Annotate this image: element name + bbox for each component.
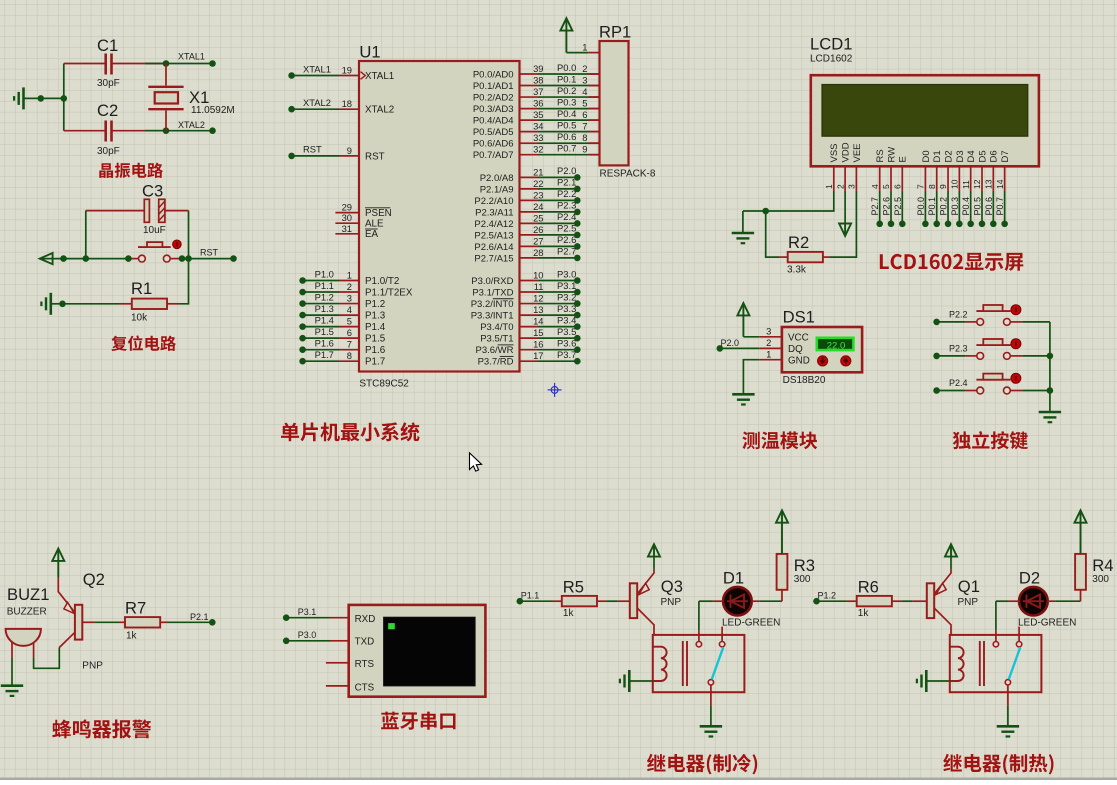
svg-text:P2.1: P2.1 — [190, 612, 209, 622]
svg-text:3: 3 — [847, 184, 857, 189]
svg-text:23: 23 — [533, 189, 543, 200]
wire button P2.2 to common — [1010, 321, 1022, 323]
resistor R4 — [1075, 554, 1086, 590]
svg-text:22.0: 22.0 — [827, 340, 846, 351]
resistor pack RP1 — [600, 41, 629, 165]
clock chevron on XTAL1 — [361, 72, 366, 80]
wire P1.2 to R6 — [817, 600, 847, 602]
wire P0.4 to LCD D4 + node P0.4 — [970, 191, 972, 224]
svg-text:LED-GREEN: LED-GREEN — [722, 618, 780, 629]
wire relay common to ground — [1007, 685, 1009, 706]
wire relay common to ground — [710, 685, 712, 706]
pin 4 RP1 stub — [589, 96, 600, 98]
svg-text:RW: RW — [886, 147, 897, 163]
label duli anjian — [953, 431, 1028, 449]
svg-text:P0.3/AD3: P0.3/AD3 — [473, 104, 514, 115]
push button P2.4 — [965, 390, 976, 392]
svg-text:P2.7/A15: P2.7/A15 — [474, 253, 513, 264]
pin 21 P2.0 wire + node P2.0 — [520, 176, 539, 178]
svg-text:RP1: RP1 — [599, 23, 631, 42]
power arrow (R3) — [776, 510, 788, 522]
svg-text:P0.2: P0.2 — [939, 197, 949, 216]
svg-text:P3.6/WR: P3.6/WR — [475, 345, 513, 356]
wire buzzer left leg + ground — [11, 658, 13, 685]
svg-text:P2.3: P2.3 — [557, 200, 576, 211]
svg-text:5: 5 — [582, 98, 587, 109]
svg-text:35: 35 — [533, 109, 543, 120]
svg-text:2: 2 — [582, 63, 587, 74]
LCD LCD1 body — [811, 75, 1039, 166]
svg-text:XTAL1: XTAL1 — [365, 71, 394, 82]
svg-text:16: 16 — [533, 339, 543, 350]
power arrow down (LCD VDD) — [844, 191, 846, 223]
power arrow (R4) — [1075, 510, 1087, 522]
svg-text:D6: D6 — [989, 150, 1000, 162]
bluetooth serial module body — [349, 605, 486, 697]
junction dot — [1047, 353, 1054, 360]
pin 3 VCC wire + power arrow — [759, 336, 782, 338]
svg-text:D3: D3 — [955, 150, 966, 162]
svg-text:P2.4: P2.4 — [557, 211, 576, 222]
svg-text:D1: D1 — [932, 150, 943, 162]
svg-text:28: 28 — [533, 247, 543, 258]
svg-text:P1.2: P1.2 — [818, 591, 837, 601]
wire P0.1 to LCD D1 + node P0.1 — [936, 191, 938, 224]
svg-text:10: 10 — [533, 270, 543, 281]
svg-text:P3.0: P3.0 — [557, 268, 576, 279]
relay core — [682, 641, 684, 686]
wire D2 to relay contact — [1009, 600, 1020, 602]
svg-text:P3.7/RD: P3.7/RD — [478, 357, 514, 368]
svg-text:P1.4: P1.4 — [365, 322, 386, 333]
pin 3 RP1 stub — [589, 85, 600, 87]
pin 39 P0.0 wire to RP1 — [520, 73, 539, 75]
label lanya chuankou — [381, 712, 455, 730]
pin 17 P3.7 wire + node P3.7 — [520, 360, 539, 362]
svg-text:9: 9 — [582, 144, 587, 155]
svg-text:LCD1: LCD1 — [810, 35, 852, 54]
svg-text:P2.4: P2.4 — [949, 378, 968, 388]
power arrow (Q3 emitter) — [653, 557, 655, 569]
svg-text:RS: RS — [875, 149, 886, 162]
svg-text:P0.1/AD1: P0.1/AD1 — [473, 81, 514, 92]
relay core — [979, 641, 981, 686]
junction dot — [762, 208, 769, 215]
svg-text:XTAL1: XTAL1 — [303, 63, 331, 74]
node P1.1 — [517, 598, 524, 605]
pin RXD wire + node P3.1 — [330, 617, 349, 619]
wire button P2.3 to common — [1010, 355, 1022, 357]
svg-text:P2.6/A14: P2.6/A14 — [474, 242, 513, 253]
svg-text:8: 8 — [347, 350, 352, 361]
wire R7 to node P2.1 — [168, 621, 213, 623]
svg-text:RST: RST — [200, 248, 219, 258]
svg-text:P1.4: P1.4 — [315, 314, 334, 325]
pin 3 P1.2 wire + node P1.2 — [299, 300, 306, 307]
svg-text:P1.1/T2EX: P1.1/T2EX — [365, 287, 413, 298]
svg-text:P0.7: P0.7 — [995, 197, 1005, 216]
svg-text:33: 33 — [533, 132, 543, 143]
svg-text:11.0592M: 11.0592M — [191, 105, 235, 116]
svg-text:PNP: PNP — [661, 597, 682, 608]
svg-text:1: 1 — [766, 348, 771, 359]
pin 27 P2.6 wire + node P2.6 — [520, 245, 539, 247]
wire C3 right branch — [188, 211, 190, 259]
svg-text:DS1: DS1 — [783, 308, 815, 327]
svg-text:30: 30 — [342, 212, 352, 223]
power arrow (RP1 pin1) — [560, 18, 572, 30]
svg-text:U1: U1 — [359, 43, 380, 62]
wire ground to junction — [24, 97, 64, 99]
svg-text:P2.1/A9: P2.1/A9 — [480, 184, 514, 195]
svg-text:VDD: VDD — [841, 142, 852, 162]
svg-text:37: 37 — [533, 86, 543, 97]
junction dot X1 top — [163, 60, 170, 67]
pin 16 P3.6 wire + node P3.6 — [520, 349, 539, 351]
svg-text:P0.7: P0.7 — [557, 143, 576, 154]
wire R6 to Q1 base — [902, 600, 913, 602]
svg-text:32: 32 — [533, 144, 543, 155]
svg-text:D4: D4 — [966, 150, 977, 162]
junction dot — [83, 255, 90, 262]
crystal X1 — [165, 64, 167, 86]
svg-text:P0.4/AD4: P0.4/AD4 — [473, 116, 514, 127]
svg-text:P0.0/AD0: P0.0/AD0 — [473, 69, 514, 80]
svg-text:R5: R5 — [563, 578, 584, 597]
label fengmingqi baojing — [52, 720, 151, 739]
svg-text:P1.3: P1.3 — [315, 303, 334, 314]
bottom window edge — [0, 778, 1117, 781]
terminal arrow (reset net) — [40, 253, 53, 264]
svg-text:14: 14 — [995, 179, 1005, 189]
relay body (继电器(制冷)) — [653, 635, 745, 692]
pin 9 RP1 stub — [589, 154, 600, 156]
svg-text:P0.1: P0.1 — [557, 73, 576, 84]
svg-text:D2: D2 — [943, 150, 954, 162]
svg-text:LED-GREEN: LED-GREEN — [1018, 618, 1076, 629]
push button P2.2 — [965, 321, 976, 323]
svg-text:RESPACK-8: RESPACK-8 — [600, 169, 656, 180]
svg-text:R2: R2 — [788, 233, 809, 252]
svg-text:P2.4/A12: P2.4/A12 — [474, 219, 513, 230]
svg-text:5: 5 — [881, 184, 891, 189]
temperature module DS1 body — [782, 327, 862, 372]
pin 26 P2.5 wire + node P2.5 — [520, 234, 539, 236]
svg-text:E: E — [898, 156, 909, 162]
svg-text:XTAL1: XTAL1 — [178, 52, 205, 62]
svg-text:VSS: VSS — [829, 143, 840, 162]
wire P0.7 to LCD D7 + node P0.7 — [1004, 191, 1006, 224]
svg-text:D1: D1 — [723, 569, 744, 588]
DS1 temperature display 22.0 — [817, 338, 854, 350]
capacitor C2 — [64, 130, 105, 132]
wire D2 to R4 — [1048, 600, 1056, 602]
capacitor C3 (polarized) — [86, 210, 145, 212]
svg-text:1k: 1k — [126, 631, 138, 642]
svg-text:13: 13 — [984, 179, 994, 189]
push button P2.3 — [965, 355, 976, 357]
svg-text:P3.0/RXD: P3.0/RXD — [471, 276, 513, 287]
pin TXD wire + node P3.0 — [330, 640, 349, 642]
svg-text:9: 9 — [347, 145, 352, 156]
ground (keys) — [1039, 411, 1061, 414]
svg-text:XTAL2: XTAL2 — [303, 97, 331, 108]
svg-text:18: 18 — [342, 98, 352, 109]
pin 9 RST wire + node RST — [288, 153, 295, 160]
node XTAL2 — [209, 127, 216, 134]
svg-text:6: 6 — [347, 327, 352, 338]
svg-text:P2.3: P2.3 — [949, 343, 968, 353]
svg-text:12: 12 — [972, 179, 982, 189]
svg-text:27: 27 — [533, 235, 543, 246]
svg-text:P0.4: P0.4 — [557, 108, 576, 119]
wire VSS to ground — [743, 191, 834, 211]
pin 19 XTAL1 wire + node XTAL1 — [288, 72, 295, 79]
svg-text:3: 3 — [766, 326, 771, 337]
svg-text:ALE: ALE — [365, 219, 384, 230]
svg-text:21: 21 — [533, 166, 543, 177]
svg-text:1: 1 — [824, 184, 834, 189]
resistor R6 — [847, 600, 857, 602]
svg-text:P1.7: P1.7 — [315, 349, 334, 360]
svg-text:P3.2/INT0: P3.2/INT0 — [471, 299, 514, 310]
svg-text:3: 3 — [582, 75, 587, 86]
svg-text:8: 8 — [582, 132, 587, 143]
svg-text:5: 5 — [347, 316, 352, 327]
resistor R5 — [552, 600, 562, 602]
svg-text:P3.5/T1: P3.5/T1 — [480, 334, 513, 345]
svg-text:300: 300 — [1092, 574, 1109, 585]
relay contact pins — [1018, 627, 1020, 642]
pin 31 EA stub — [335, 233, 359, 235]
svg-text:P1.0: P1.0 — [315, 268, 334, 279]
wire P0.5 to LCD D5 + node P0.5 — [981, 191, 983, 224]
svg-text:P3.1/TXD: P3.1/TXD — [472, 287, 513, 298]
relay coil — [653, 647, 667, 681]
pin 2 DQ wire + node P2.0 — [759, 347, 782, 349]
svg-text:13: 13 — [533, 304, 543, 315]
svg-text:D0: D0 — [921, 150, 932, 162]
svg-text:P1.5: P1.5 — [365, 334, 386, 345]
svg-text:300: 300 — [794, 574, 811, 585]
svg-text:14: 14 — [533, 316, 543, 327]
svg-text:CTS: CTS — [355, 683, 375, 694]
svg-text:VCC: VCC — [788, 332, 809, 343]
svg-text:1: 1 — [347, 270, 352, 281]
svg-text:2: 2 — [347, 281, 352, 292]
svg-text:7: 7 — [347, 339, 352, 350]
pin 5 P1.4 wire + node P1.4 — [299, 323, 306, 330]
op-amp U1 body (microcontroller STC89C52) — [359, 61, 520, 372]
svg-text:XTAL2: XTAL2 — [365, 105, 394, 116]
wire D1 to R3 — [752, 600, 760, 602]
svg-text:P3.0: P3.0 — [298, 630, 317, 640]
svg-text:P3.3/INT1: P3.3/INT1 — [471, 310, 514, 321]
wire P2.5 to LCD E + node P2.5 — [901, 191, 903, 224]
svg-text:C3: C3 — [142, 182, 163, 201]
svg-text:3: 3 — [347, 293, 352, 304]
push button (reset) — [128, 258, 138, 260]
svg-text:30pF: 30pF — [97, 146, 120, 157]
svg-text:25: 25 — [533, 212, 543, 223]
wire P0.2 to LCD D2 + node P0.2 — [947, 191, 949, 224]
svg-text:4: 4 — [870, 184, 880, 189]
relay body (继电器(制热)) — [950, 635, 1042, 692]
node XTAL1 — [209, 60, 216, 67]
svg-text:P1.3: P1.3 — [365, 310, 386, 321]
label cewen mokuai — [742, 431, 817, 449]
svg-text:C1: C1 — [97, 36, 118, 55]
wire VEE to R2 — [830, 191, 856, 257]
pin 29 PSEN stub — [335, 212, 359, 214]
pin 25 P2.4 wire + node P2.4 — [520, 222, 539, 224]
svg-text:P0.5/AD5: P0.5/AD5 — [473, 127, 514, 138]
wire D1 to relay contact — [713, 600, 724, 602]
svg-text:7: 7 — [582, 121, 587, 132]
svg-text:P3.4/T0: P3.4/T0 — [480, 322, 513, 333]
pin 6 RP1 stub — [589, 119, 600, 121]
svg-text:TXD: TXD — [355, 637, 375, 648]
LCD screen — [822, 85, 1028, 137]
svg-text:P2.2/A10: P2.2/A10 — [474, 196, 513, 207]
svg-text:11: 11 — [961, 180, 971, 189]
svg-text:BUZZER: BUZZER — [7, 606, 47, 617]
wire RST row right / node RST — [182, 258, 234, 260]
relay switch arm — [712, 647, 724, 679]
pin 36 P0.3 wire to RP1 — [520, 108, 539, 110]
svg-text:RST: RST — [365, 151, 385, 162]
pin 4 P1.3 wire + node P1.3 — [299, 312, 306, 319]
node P2.4 — [933, 387, 940, 394]
wire P0.0 to LCD D0 + node P0.0 — [924, 191, 926, 224]
svg-text:P2.0: P2.0 — [721, 338, 740, 348]
pin 1 GND wire + ground — [759, 359, 782, 361]
pin 38 P0.1 wire to RP1 — [520, 85, 539, 87]
svg-text:3.3k: 3.3k — [787, 265, 807, 276]
pin 7 RP1 stub — [589, 131, 600, 133]
wire P1.1 to R5 — [520, 600, 552, 602]
svg-text:VEE: VEE — [852, 143, 863, 162]
wire vertical C1-C2 branch — [63, 64, 65, 131]
svg-text:34: 34 — [533, 121, 543, 132]
svg-text:2: 2 — [766, 337, 771, 348]
pin 13 P3.3 wire + node P3.3 — [520, 314, 539, 316]
pin CTS stub — [326, 685, 349, 687]
svg-text:P0.5: P0.5 — [557, 119, 576, 130]
svg-text:P3.5: P3.5 — [557, 326, 576, 337]
pin 15 P3.5 wire + node P3.5 — [520, 337, 539, 339]
svg-text:P0.3: P0.3 — [950, 197, 960, 216]
svg-text:P0.7/AD7: P0.7/AD7 — [473, 150, 514, 161]
svg-text:2: 2 — [835, 184, 845, 189]
svg-text:P1.0/T2: P1.0/T2 — [365, 276, 399, 287]
DS1 up button — [841, 356, 851, 366]
pin RTS stub — [326, 662, 349, 664]
label R6 section — [943, 754, 1053, 775]
svg-text:STC89C52: STC89C52 — [359, 379, 409, 390]
svg-text:RXD: RXD — [355, 614, 376, 625]
svg-text:GND: GND — [788, 355, 810, 366]
svg-text:P2.7: P2.7 — [557, 246, 576, 257]
base wire Q2 to R7 — [82, 621, 94, 623]
node P2.2 — [933, 319, 940, 326]
pin 32 P0.7 wire to RP1 — [520, 154, 539, 156]
svg-text:Q3: Q3 — [661, 577, 683, 596]
pin 23 P2.2 wire + node P2.2 — [520, 199, 539, 201]
svg-text:P1.5: P1.5 — [315, 326, 334, 337]
mouse cursor — [470, 453, 482, 471]
pin 37 P0.2 wire to RP1 — [520, 96, 539, 98]
svg-text:P1.7: P1.7 — [365, 357, 385, 368]
svg-text:12: 12 — [533, 293, 543, 304]
svg-text:P2.5: P2.5 — [893, 197, 903, 216]
wire P0.6 to LCD D6 + node P0.6 — [992, 191, 994, 224]
LED D2 — [1019, 587, 1048, 616]
svg-text:DS18B20: DS18B20 — [783, 375, 826, 386]
svg-text:D7: D7 — [1000, 150, 1011, 162]
svg-text:4: 4 — [582, 86, 587, 97]
svg-text:BUZ1: BUZ1 — [7, 585, 49, 604]
resistor R3 — [777, 554, 788, 590]
label jingzhen dianlu — [99, 163, 163, 179]
svg-text:RTS: RTS — [355, 659, 375, 670]
svg-text:39: 39 — [533, 63, 543, 74]
svg-text:19: 19 — [342, 65, 352, 76]
junction dot X1 bottom — [163, 127, 170, 134]
svg-text:P1.2: P1.2 — [315, 291, 334, 302]
svg-text:P3.1: P3.1 — [557, 280, 576, 291]
svg-text:P2.6: P2.6 — [557, 234, 576, 245]
pin 8 P1.7 wire + node P1.7 — [299, 358, 306, 365]
ground (LCD VSS) — [742, 211, 744, 233]
wire RST row left — [41, 258, 128, 260]
svg-text:P0.6: P0.6 — [984, 197, 994, 216]
svg-text:Q1: Q1 — [958, 577, 980, 596]
svg-text:C2: C2 — [97, 101, 118, 120]
svg-text:22: 22 — [533, 178, 543, 189]
svg-text:8: 8 — [927, 184, 937, 189]
svg-text:P3.2: P3.2 — [557, 291, 576, 302]
pin 34 P0.5 wire to RP1 — [520, 131, 539, 133]
ground (crystal circuit) — [22, 87, 25, 109]
svg-text:6: 6 — [582, 109, 587, 120]
label R5 section — [647, 754, 757, 775]
junction dot — [59, 301, 66, 308]
svg-text:1k: 1k — [858, 608, 870, 619]
svg-text:P2.3/A11: P2.3/A11 — [475, 207, 513, 218]
origin marker — [548, 383, 562, 397]
pin 10 P3.0 wire + node P3.0 — [520, 280, 539, 282]
pin 6 P1.5 wire + node P1.5 — [299, 335, 306, 342]
svg-text:Q2: Q2 — [83, 570, 105, 589]
svg-text:P2.0: P2.0 — [557, 165, 576, 176]
svg-text:P1.1: P1.1 — [521, 591, 540, 601]
svg-text:PNP: PNP — [82, 661, 103, 672]
svg-text:P2.0/A8: P2.0/A8 — [480, 173, 514, 184]
pin 7 P1.6 wire + node P1.6 — [299, 346, 306, 353]
pin 35 P0.4 wire to RP1 — [520, 119, 539, 121]
svg-text:D2: D2 — [1019, 569, 1040, 588]
svg-text:29: 29 — [342, 202, 352, 213]
svg-text:15: 15 — [533, 327, 543, 338]
ground (reset circuit) — [49, 293, 52, 315]
svg-text:P0.6: P0.6 — [557, 131, 576, 142]
svg-text:P3.4: P3.4 — [557, 314, 576, 325]
pin 1 RP1 wire — [566, 52, 588, 54]
ground (relay coil) — [925, 670, 928, 692]
svg-text:P1.1: P1.1 — [315, 280, 334, 291]
svg-text:P1.2: P1.2 — [365, 299, 385, 310]
